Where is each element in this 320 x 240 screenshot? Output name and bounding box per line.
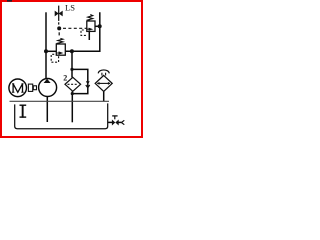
svg-text:LS: LS <box>65 3 75 13</box>
svg-text:2: 2 <box>63 73 67 82</box>
